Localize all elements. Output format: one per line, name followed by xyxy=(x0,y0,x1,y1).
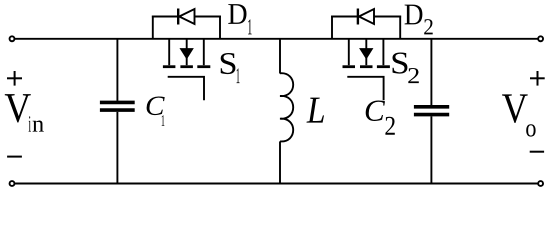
label C2 xyxy=(366,101,395,135)
node output terminal top xyxy=(538,36,543,41)
label minus input xyxy=(7,156,22,158)
diode D1 xyxy=(152,9,221,39)
node input terminal bottom xyxy=(10,181,15,186)
label plus output xyxy=(530,71,545,86)
label C1 xyxy=(147,96,165,126)
capacitor C1 xyxy=(100,39,135,184)
label L xyxy=(306,98,324,123)
wire bottom rail xyxy=(15,183,538,185)
transistor S2 xyxy=(343,39,390,101)
label Vin xyxy=(5,94,44,131)
label Vo xyxy=(502,94,536,136)
node output terminal bottom xyxy=(538,181,543,186)
capacitor C2 xyxy=(414,39,449,184)
inductor L xyxy=(280,39,293,184)
label S2 xyxy=(393,53,419,84)
label D1 xyxy=(228,4,251,34)
node input terminal top xyxy=(10,36,15,41)
label minus output xyxy=(530,151,544,153)
label D2 xyxy=(405,5,433,35)
wire top rail xyxy=(15,38,538,40)
label plus input xyxy=(7,71,22,86)
label S1 xyxy=(221,53,240,83)
transistor S1 xyxy=(163,39,210,101)
diode D2 xyxy=(331,9,401,39)
